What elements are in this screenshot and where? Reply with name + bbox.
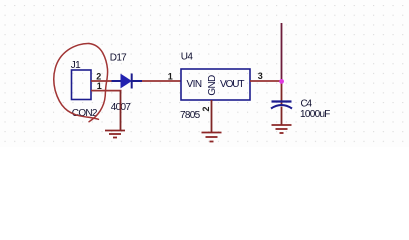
svg-text:GND: GND bbox=[207, 75, 218, 96]
svg-text:D17: D17 bbox=[110, 52, 127, 63]
ground (U4 GND) bbox=[202, 133, 222, 142]
svg-text:2: 2 bbox=[96, 72, 101, 82]
svg-text:3: 3 bbox=[258, 71, 263, 81]
svg-text:VOUT: VOUT bbox=[220, 79, 244, 90]
junction node at VOUT bbox=[279, 79, 284, 84]
ground (J1 pin 1) bbox=[105, 131, 125, 138]
svg-text:1: 1 bbox=[168, 72, 173, 82]
svg-text:C4: C4 bbox=[301, 99, 313, 110]
wire U4 GND to ground bbox=[211, 100, 213, 133]
svg-text:7805: 7805 bbox=[180, 110, 201, 121]
wire C4 to ground bbox=[281, 107, 283, 126]
wire J1 pin 2 to D17 anode bbox=[91, 80, 112, 82]
ground (C4) bbox=[272, 125, 292, 133]
svg-text:2: 2 bbox=[201, 106, 211, 111]
svg-text:J1: J1 bbox=[71, 60, 81, 71]
capacitor C4 bbox=[271, 102, 292, 109]
connector J1 bbox=[72, 70, 92, 100]
svg-text:1000uF: 1000uF bbox=[300, 109, 330, 120]
svg-text:VIN: VIN bbox=[187, 79, 202, 90]
wire node down to C4 bbox=[281, 81, 283, 106]
diode D17 bbox=[112, 74, 143, 89]
svg-text:U4: U4 bbox=[181, 51, 194, 62]
wire D17 cathode to U4 VIN bbox=[142, 80, 181, 82]
wire U4 VOUT to node bbox=[250, 80, 282, 82]
wire J1 pin 1 right segment bbox=[91, 90, 122, 92]
wire node up bbox=[281, 23, 283, 81]
wire J1 pin 1 down to ground bbox=[120, 91, 122, 131]
regulator U4 bbox=[181, 69, 250, 100]
annotation: hand-drawn red circle around J1 bbox=[54, 43, 108, 121]
